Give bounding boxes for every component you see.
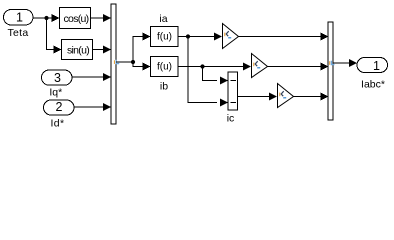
sum block (minus minus) xyxy=(228,72,238,110)
svg-text:f(u): f(u) xyxy=(157,62,172,73)
wire junction down to f(u) ib xyxy=(133,62,151,71)
wire mux1 to junction xyxy=(116,61,133,63)
wire f(u) ia to junction xyxy=(178,36,188,38)
gain K3 xyxy=(278,84,294,108)
wire junction to cos xyxy=(47,14,60,22)
label ic xyxy=(227,113,235,125)
svg-text:ic: ic xyxy=(227,113,235,125)
wire gain3 to mux2 xyxy=(294,93,329,101)
wire junction up to f(u) ia xyxy=(133,33,151,63)
svg-text:2: 2 xyxy=(56,100,63,114)
label ib xyxy=(160,81,168,93)
mux U1 xyxy=(111,4,116,124)
wire gain1 to mux2 xyxy=(239,33,329,41)
inport 1 Teta xyxy=(4,10,34,40)
wire junction down to sin xyxy=(47,18,62,54)
wire mux2 to outport xyxy=(333,59,357,67)
mux1 output label mark xyxy=(114,60,119,64)
outport 1 Iabc* xyxy=(357,58,388,91)
node junction mux1 out xyxy=(131,60,135,64)
mux2 output label mark xyxy=(329,61,334,65)
node junction Teta xyxy=(44,16,48,20)
wire ia junction down to sum input 2 xyxy=(188,37,228,107)
svg-text:Teta: Teta xyxy=(7,27,28,39)
svg-text:Iq*: Iq* xyxy=(49,87,62,99)
mux U2 xyxy=(328,22,333,120)
wire Iq* to mux1 xyxy=(72,73,111,81)
svg-text:Iabc*: Iabc* xyxy=(361,79,385,91)
wire sum to gain3 xyxy=(238,93,278,101)
svg-text:1: 1 xyxy=(16,11,23,25)
wire ib junction to gain2 xyxy=(203,63,252,71)
wire sin to mux1 xyxy=(93,46,112,54)
svg-text:3: 3 xyxy=(54,71,61,85)
node junction ib xyxy=(200,64,204,68)
svg-text:cos(u): cos(u) xyxy=(64,13,89,25)
svg-text:sin(u): sin(u) xyxy=(67,45,89,57)
svg-text:Id*: Id* xyxy=(50,118,64,130)
wire Id* to mux1 xyxy=(74,103,111,111)
wire ia junction to gain1 xyxy=(188,33,222,41)
wire f(u) ib to junction xyxy=(178,66,203,68)
wire ib junction down to sum input 1 xyxy=(203,67,229,85)
label ia xyxy=(159,13,167,25)
svg-text:ia: ia xyxy=(159,13,167,25)
inport 2 Id* xyxy=(44,100,75,130)
wire gain2 to mux2 xyxy=(268,63,329,71)
block Fcn ia f(u) xyxy=(151,27,179,47)
gain K1 xyxy=(223,24,239,49)
wire Teta to junction xyxy=(33,17,47,19)
block sin(u) xyxy=(62,40,93,60)
node junction ia xyxy=(186,34,190,38)
svg-text:f(u): f(u) xyxy=(157,32,172,43)
svg-text:ib: ib xyxy=(160,81,168,93)
inport 3 Iq* xyxy=(42,70,73,99)
gain K2 xyxy=(252,54,268,78)
block Fcn ib f(u) xyxy=(151,57,179,77)
wire cos to mux1 xyxy=(91,14,112,22)
block cos(u) xyxy=(60,8,91,29)
svg-text:1: 1 xyxy=(373,59,380,73)
